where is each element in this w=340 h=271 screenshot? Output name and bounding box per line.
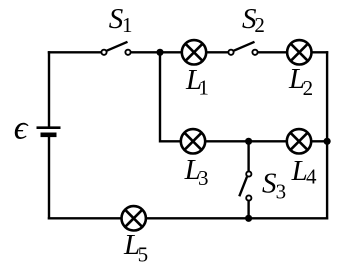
svg-text:1: 1 bbox=[122, 13, 133, 37]
wire: left rail bottom (battery to bottom-left corner) bbox=[48, 135, 50, 220]
lamp L3 bbox=[181, 129, 205, 153]
svg-text:5: 5 bbox=[138, 242, 149, 266]
svg-text:3: 3 bbox=[198, 166, 209, 190]
node A junction dot bbox=[156, 49, 163, 56]
wire: L2 to top-right corner bbox=[312, 51, 329, 53]
wire: mid horizontal to lamp L3 bbox=[160, 140, 181, 142]
wire: bottom-left horizontal to lamp L5 bbox=[48, 217, 122, 219]
switch S1 bbox=[101, 42, 130, 55]
wire: S2 to lamp L2 bbox=[258, 51, 287, 53]
switch S3 bbox=[239, 171, 251, 200]
wire: S1 to node A bbox=[131, 51, 182, 53]
svg-text:2: 2 bbox=[303, 76, 314, 100]
battery cell: long plate bbox=[37, 126, 61, 129]
wire: S3 down to bottom wire bbox=[247, 201, 249, 218]
node B junction dot bbox=[245, 138, 252, 145]
wire: L1 to switch S2 bbox=[206, 51, 228, 53]
node C junction dot on right rail bbox=[324, 138, 331, 145]
switch S2 bbox=[228, 42, 257, 55]
wire: L5 to bottom-right corner bbox=[146, 217, 328, 219]
wire: L3 to node B bbox=[205, 140, 287, 142]
svg-text:4: 4 bbox=[306, 164, 317, 188]
wire: node B down to switch S3 bbox=[247, 141, 249, 171]
lamp L1 bbox=[182, 40, 206, 64]
wire: top-left horizontal from left rail to switch S1 bbox=[48, 51, 101, 53]
lamp L5 bbox=[122, 206, 146, 230]
svg-text:1: 1 bbox=[198, 76, 209, 100]
node D junction dot on bottom wire bbox=[245, 215, 252, 222]
lamp L2 bbox=[287, 40, 311, 64]
wire: right rail vertical bbox=[326, 51, 328, 219]
svg-text:2: 2 bbox=[254, 13, 265, 37]
wire: L4 to right rail bbox=[311, 140, 327, 142]
battery cell: short thick plate bbox=[41, 133, 57, 138]
lamp L4 bbox=[287, 129, 311, 153]
wire: left rail top (corner to battery) bbox=[48, 51, 50, 127]
svg-text:3: 3 bbox=[276, 179, 287, 203]
wire: mid-left vertical from node A down bbox=[159, 52, 161, 142]
svg-text:ϵ: ϵ bbox=[14, 110, 29, 147]
